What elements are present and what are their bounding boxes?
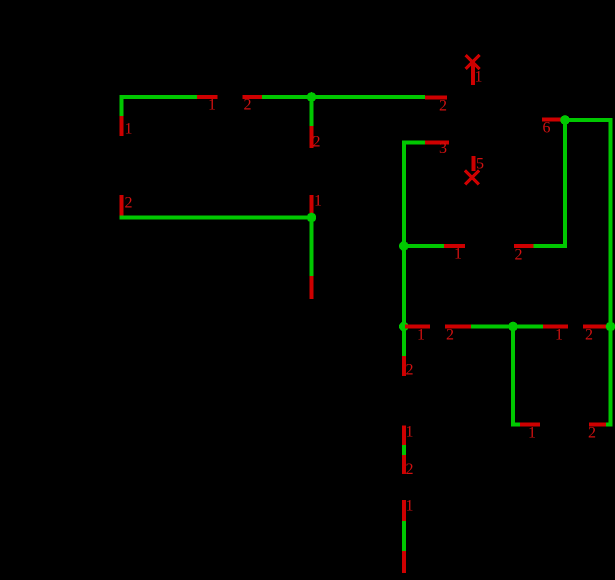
svg-text:3: 3 [439, 140, 447, 157]
junction node C at U1 pin 6 [560, 115, 570, 125]
junction node E [399, 322, 409, 332]
wire right-edge vertical long [609, 120, 613, 427]
junction node D [399, 241, 409, 251]
svg-text:2: 2 [406, 461, 414, 478]
svg-text:1: 1 [528, 425, 536, 442]
capacitor C2 pin 1 vertical [402, 424, 414, 446]
svg-text:2: 2 [313, 134, 321, 151]
svg-text:2: 2 [439, 98, 447, 115]
svg-text:2: 2 [515, 247, 523, 264]
resistor R2 pin 1 vertical [310, 193, 323, 216]
no-connect X on U1 pin 5 [465, 171, 479, 185]
svg-text:2: 2 [406, 362, 414, 379]
svg-text:1: 1 [417, 327, 425, 344]
resistor R1 pin 2 [243, 95, 263, 114]
wire R3 pin2 to riser [533, 244, 567, 248]
op-amp U1 pin 3 [425, 140, 449, 157]
wire C2 to C3 stub [402, 445, 406, 455]
capacitor C2 pin 2 vertical [402, 356, 414, 379]
wire node F vertical down [511, 325, 515, 427]
resistor R6 pin 2 [588, 423, 608, 442]
resistor R5 pin 2 [583, 325, 608, 344]
wire corner to R6 pin1 [511, 423, 520, 427]
wire net1 top-left horizontal [120, 95, 198, 99]
junction node G [606, 322, 615, 332]
svg-text:1: 1 [314, 193, 322, 210]
svg-text:1: 1 [406, 424, 414, 441]
op-amp U1 pin 5 [472, 156, 484, 173]
svg-text:1: 1 [555, 327, 563, 344]
svg-text:1: 1 [125, 121, 133, 138]
wire net1 top-left vertical drop [120, 95, 124, 116]
wire mid vertical long [402, 141, 406, 357]
wire node B vertical drop [310, 217, 314, 276]
wire net2 horizontal row [120, 216, 314, 220]
svg-text:5: 5 [476, 156, 484, 173]
svg-text:1: 1 [208, 97, 216, 114]
capacitor C3 pin 2 vertical [402, 455, 414, 478]
svg-text:2: 2 [585, 327, 593, 344]
op-amp U1 pin 1 [471, 64, 483, 86]
capacitor C1 pin 1 vertical [120, 116, 133, 138]
svg-text:1: 1 [454, 246, 462, 263]
wire R4 pin2 to node F [471, 325, 543, 329]
op-amp U1 pin 2 [425, 96, 447, 115]
wire U1 pin3 stub horizontal [402, 141, 425, 145]
svg-text:6: 6 [543, 120, 551, 137]
svg-text:1: 1 [475, 69, 483, 86]
resistor R4 pin 2 [445, 325, 471, 344]
resistor R4 pin 1 [405, 325, 430, 344]
op-amp U1 pin 6 [542, 118, 565, 137]
resistor R3 pin 1 [444, 244, 465, 263]
svg-text:2: 2 [588, 425, 596, 442]
wire node D to R3 [404, 244, 444, 248]
junction node A [307, 92, 317, 102]
svg-text:2: 2 [125, 195, 133, 212]
svg-text:1: 1 [406, 498, 414, 515]
wire C3 to P2 stub [402, 521, 406, 551]
resistor R3 pin 2 [514, 244, 533, 264]
resistor R1 pin 1 [197, 95, 218, 114]
capacitor C3 pin 1 vertical [402, 498, 414, 522]
resistor R2 pin 2 vertical [310, 126, 321, 151]
capacitor C1 pin 2 vertical [120, 195, 133, 217]
junction node B [307, 213, 317, 223]
wire net1 horizontal R1 to U1 [262, 95, 425, 99]
connector P1 pin 1 vertical [310, 276, 314, 299]
wire corner at right of R6 [606, 423, 613, 427]
connector P2 pin vertical [402, 551, 406, 573]
wire node C vertical down [563, 118, 567, 248]
svg-text:2: 2 [244, 97, 252, 114]
no-connect X on U1 pin 1 [466, 55, 480, 69]
svg-text:2: 2 [446, 327, 454, 344]
wire node A vertical drop [310, 97, 314, 126]
wire node C to right edge [565, 118, 613, 122]
junction node F [508, 322, 518, 332]
resistor R6 pin 1 [520, 423, 540, 442]
resistor R5 pin 1 [543, 325, 568, 344]
